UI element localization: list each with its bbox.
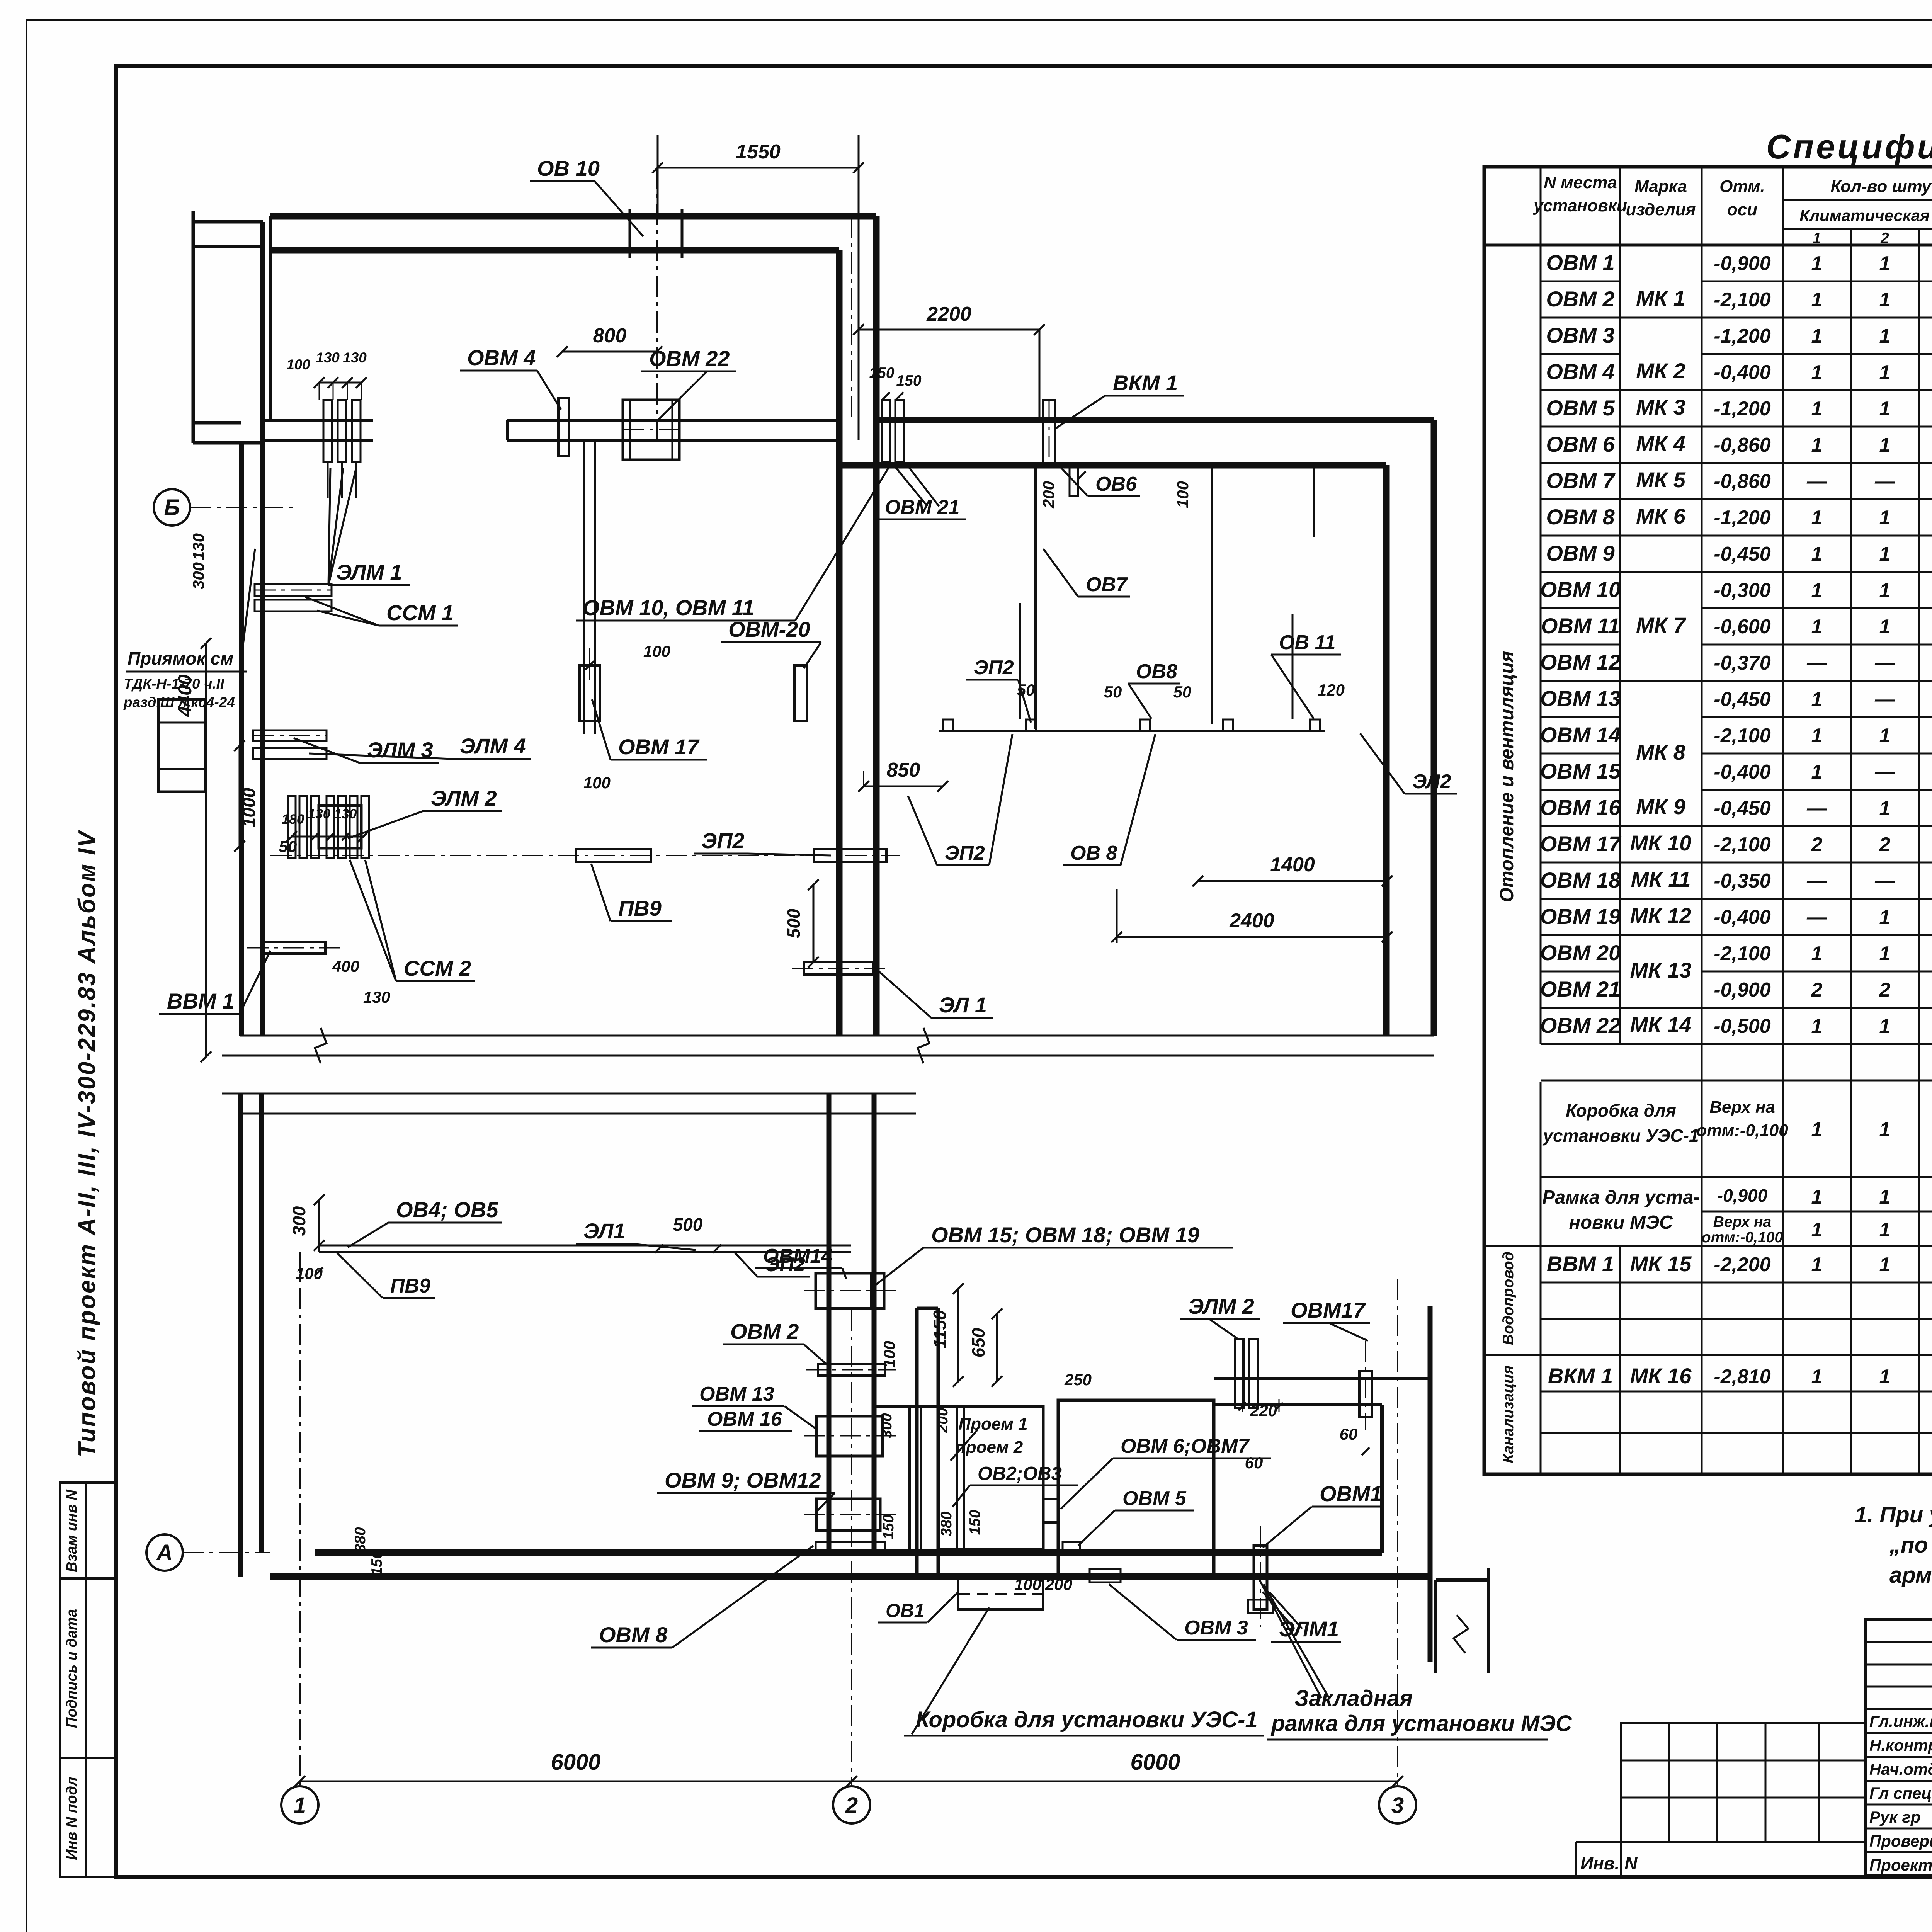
svg-text:380: 380 <box>352 1527 369 1552</box>
svg-text:ОВМ 3: ОВМ 3 <box>1184 1617 1248 1639</box>
svg-text:Закладная: Закладная <box>1294 1686 1413 1711</box>
svg-text:1: 1 <box>1811 1219 1823 1241</box>
svg-text:-2,810: -2,810 <box>1714 1366 1771 1388</box>
elm3 elm4 plates <box>253 730 327 741</box>
svg-text:-0,450: -0,450 <box>1714 797 1771 820</box>
svg-text:ОВМ 14: ОВМ 14 <box>1540 723 1621 747</box>
svg-text:1. При установке закладной: 1. При установке закладной рамки, полки … <box>1855 1502 1932 1527</box>
svg-text:6000: 6000 <box>1130 1750 1180 1775</box>
OVM13/16 element box <box>816 1416 883 1456</box>
svg-text:ОВ6: ОВ6 <box>1095 473 1137 495</box>
svg-text:130: 130 <box>334 806 357 821</box>
left spec table column lines body <box>1540 245 1542 1044</box>
svg-text:установки: установки <box>1533 196 1627 215</box>
svg-text:ЭП2: ЭП2 <box>945 842 985 864</box>
OVM17 element u <box>580 665 600 721</box>
svg-text:800: 800 <box>593 325 627 347</box>
axis circle 2 <box>833 1786 870 1823</box>
svg-text:150: 150 <box>880 1514 897 1539</box>
svg-text:1: 1 <box>1811 507 1823 529</box>
left spec table outer frame <box>1484 167 1932 1474</box>
svg-text:МК 6: МК 6 <box>1636 504 1686 528</box>
svg-text:ОВМ-20: ОВМ-20 <box>728 617 810 641</box>
axis A circle <box>146 1534 183 1571</box>
svg-text:МК 2: МК 2 <box>1636 359 1685 383</box>
svg-text:ОВМ 13: ОВМ 13 <box>1540 686 1621 711</box>
bottom axis dim line <box>300 1781 1398 1782</box>
svg-text:200: 200 <box>1039 481 1058 509</box>
svg-text:-0,900: -0,900 <box>1717 1185 1768 1206</box>
svg-text:ОВМ 9: ОВМ 9 <box>1546 541 1614 565</box>
svg-text:ОВ7: ОВ7 <box>1086 573 1128 596</box>
svg-text:ОВ4; ОВ5: ОВ4; ОВ5 <box>396 1197 498 1222</box>
svg-text:ОВМ 13: ОВМ 13 <box>699 1383 774 1405</box>
axis circle 3 <box>1379 1786 1416 1823</box>
svg-text:ЭП2: ЭП2 <box>974 656 1014 679</box>
dim 4400 vertical <box>205 643 207 1057</box>
svg-text:МК 8: МК 8 <box>1636 740 1686 764</box>
svg-text:ОВМ 15; ОВМ 18; ОВМ 19: ОВМ 15; ОВМ 18; ОВМ 19 <box>931 1223 1199 1247</box>
svg-text:ОВМ 2: ОВМ 2 <box>1546 287 1614 311</box>
svg-text:ВВМ 1: ВВМ 1 <box>1547 1252 1614 1276</box>
svg-text:Водопровод: Водопровод <box>1500 1252 1517 1345</box>
svg-text:МК 9: МК 9 <box>1636 794 1685 819</box>
svg-text:-0,400: -0,400 <box>1714 906 1771 929</box>
svg-text:-0,300: -0,300 <box>1714 579 1771 602</box>
left spec table VVM/VKM rows <box>1619 1246 1621 1474</box>
svg-text:1: 1 <box>1811 398 1823 420</box>
svg-text:250: 250 <box>1064 1371 1092 1389</box>
svg-text:1: 1 <box>1811 434 1823 456</box>
svg-text:150: 150 <box>896 372 921 389</box>
svg-text:1: 1 <box>1879 398 1891 420</box>
left small stamp table <box>1576 1841 1866 1843</box>
svg-text:ОВМ 12: ОВМ 12 <box>1540 650 1621 674</box>
svg-text:1: 1 <box>294 1793 306 1818</box>
dims 1150 650 <box>957 1289 959 1381</box>
svg-text:-0,370: -0,370 <box>1714 652 1771 674</box>
svg-text:150: 150 <box>369 1550 385 1575</box>
OVM5 element <box>1063 1542 1080 1553</box>
svg-text:400: 400 <box>332 957 359 975</box>
top wall left section <box>270 213 876 220</box>
svg-text:Инв N подл: Инв N подл <box>64 1777 80 1860</box>
svg-text:—: — <box>1806 470 1827 493</box>
svg-text:Нач.отд: Нач.отд <box>1869 1760 1932 1778</box>
svg-text:2200: 2200 <box>926 303 971 325</box>
SSM1 two plates <box>255 584 332 596</box>
svg-text:130: 130 <box>189 533 207 560</box>
vert stubs to elements <box>1019 603 1021 719</box>
svg-text:ОВ2;ОВ3: ОВ2;ОВ3 <box>978 1463 1062 1484</box>
OVM1/ELM1 element <box>1254 1546 1267 1609</box>
small elements on radiator line <box>943 719 953 731</box>
svg-text:—: — <box>1806 906 1827 929</box>
svg-text:рамка для установки МЭС: рамка для установки МЭС <box>1270 1711 1572 1736</box>
svg-text:-2,100: -2,100 <box>1714 942 1771 965</box>
OVM22 element <box>623 400 679 460</box>
svg-text:1: 1 <box>1811 1015 1823 1037</box>
svg-text:100: 100 <box>880 1341 898 1368</box>
svg-text:1: 1 <box>1879 252 1891 275</box>
svg-text:изделия: изделия <box>1626 200 1696 219</box>
svg-text:Инв. N: Инв. N <box>1580 1853 1638 1873</box>
svg-text:130: 130 <box>343 350 367 366</box>
svg-text:Канализация: Канализация <box>1500 1365 1517 1463</box>
svg-text:ССМ 1: ССМ 1 <box>386 600 454 625</box>
svg-text:-1,200: -1,200 <box>1714 398 1771 420</box>
proem box <box>939 1406 1043 1549</box>
svg-text:ОВМ 18: ОВМ 18 <box>1540 868 1621 892</box>
svg-text:МК 7: МК 7 <box>1636 613 1687 637</box>
svg-text:500: 500 <box>673 1214 703 1235</box>
upper-half bottom break lines <box>240 1035 1434 1037</box>
lower-half top break lines <box>222 1093 916 1095</box>
svg-text:200: 200 <box>1045 1575 1072 1594</box>
partition x1525 upper room <box>583 440 585 734</box>
svg-text:ОВМ 4: ОВМ 4 <box>467 345 536 370</box>
wall right of block <box>1213 1400 1215 1430</box>
svg-text:-0,450: -0,450 <box>1714 688 1771 711</box>
svg-text:1: 1 <box>1811 543 1823 565</box>
svg-text:100: 100 <box>643 642 670 660</box>
svg-text:Взам инв N: Взам инв N <box>64 1489 80 1572</box>
left margin stamp boxes <box>60 1483 115 1877</box>
elm2 plates low <box>1235 1339 1243 1408</box>
svg-text:1400: 1400 <box>1270 854 1315 876</box>
svg-text:100: 100 <box>1173 481 1192 508</box>
title block signature grid <box>1866 1620 1932 1876</box>
break squiggle right <box>1454 1615 1468 1653</box>
svg-text:ОВ1: ОВ1 <box>886 1600 925 1621</box>
svg-text:2400: 2400 <box>1229 910 1274 932</box>
svg-text:—: — <box>1874 470 1895 493</box>
svg-text:1: 1 <box>1811 942 1823 965</box>
svg-text:150: 150 <box>869 365 894 381</box>
svg-text:ОВМ 17: ОВМ 17 <box>1540 832 1622 856</box>
svg-text:А: А <box>156 1540 173 1565</box>
dim 500 mid <box>813 885 815 962</box>
UES-1 box element <box>958 1578 1043 1609</box>
svg-text:1: 1 <box>1879 616 1891 638</box>
ssm2 plates <box>350 796 357 858</box>
svg-text:-2,100: -2,100 <box>1714 833 1771 856</box>
svg-text:1: 1 <box>1813 230 1821 247</box>
left spec table korobka/ramka rows <box>1541 1080 1932 1082</box>
svg-text:2: 2 <box>1879 833 1891 856</box>
svg-text:ОВМ14: ОВМ14 <box>763 1245 832 1267</box>
svg-text:—: — <box>1874 652 1895 674</box>
svg-text:60: 60 <box>1340 1425 1358 1443</box>
svg-text:4400: 4400 <box>175 674 196 717</box>
VVM1 plate <box>261 942 325 954</box>
svg-text:2: 2 <box>1880 230 1889 247</box>
svg-text:ОВМ 17: ОВМ 17 <box>618 735 700 759</box>
svg-text:ОВ8: ОВ8 <box>1136 660 1177 683</box>
svg-text:ОВМ 16: ОВМ 16 <box>1540 795 1621 820</box>
svg-text:МК 14: МК 14 <box>1630 1012 1692 1037</box>
right exterior wall upper half <box>1431 420 1437 1036</box>
OVM21 plates <box>882 400 890 462</box>
svg-text:1: 1 <box>1811 289 1823 311</box>
svg-text:ОВМ 15: ОВМ 15 <box>1540 759 1621 783</box>
OVM4 element <box>558 398 569 456</box>
svg-text:1: 1 <box>1879 1118 1891 1141</box>
svg-text:ЭЛМ 2: ЭЛМ 2 <box>1188 1294 1254 1318</box>
svg-text:оси: оси <box>1727 200 1757 219</box>
svg-text:арматурных каркасов.: арматурных каркасов. <box>1889 1563 1932 1588</box>
svg-text:-0,600: -0,600 <box>1714 616 1771 638</box>
svg-text:Коробка для установки УЭС-1: Коробка для установки УЭС-1 <box>916 1707 1258 1732</box>
svg-text:1: 1 <box>1879 289 1891 311</box>
svg-text:—: — <box>1874 870 1895 892</box>
svg-text:ТДК-Н-1-70 ч.II: ТДК-Н-1-70 ч.II <box>124 676 224 692</box>
svg-text:1: 1 <box>1879 797 1891 820</box>
svg-text:ОВМ 4: ОВМ 4 <box>1546 359 1614 384</box>
OVM8 plate on bottom wall <box>816 1542 885 1550</box>
svg-text:ОВМ 21: ОВМ 21 <box>1540 977 1621 1001</box>
dim 300 rot low <box>318 1200 320 1245</box>
svg-text:850: 850 <box>887 759 920 781</box>
svg-text:1: 1 <box>1811 579 1823 602</box>
svg-text:МК 5: МК 5 <box>1636 468 1686 492</box>
dim 2400 <box>1117 936 1387 938</box>
svg-text:1150: 1150 <box>930 1310 950 1348</box>
axis-2 wall lower half <box>827 1094 832 1549</box>
svg-text:МК 4: МК 4 <box>1636 431 1685 456</box>
svg-text:проем 2: проем 2 <box>956 1438 1023 1457</box>
svg-text:-0,400: -0,400 <box>1714 761 1771 783</box>
interior wall of upper-left room <box>262 419 373 422</box>
pit rectangle <box>158 699 206 792</box>
svg-text:ЭЛ1: ЭЛ1 <box>583 1219 625 1243</box>
lower right room walls <box>1214 1377 1430 1380</box>
svg-text:ОВ 11: ОВ 11 <box>1279 631 1335 654</box>
svg-text:ЭЛ 1: ЭЛ 1 <box>939 993 987 1017</box>
dim 100 130 130 top-left <box>319 382 333 384</box>
svg-text:Рамка для уста-: Рамка для уста- <box>1542 1187 1699 1208</box>
svg-text:1: 1 <box>1879 1015 1891 1037</box>
svg-text:—: — <box>1806 797 1827 820</box>
svg-text:-0,450: -0,450 <box>1714 543 1771 565</box>
svg-text:Типовой проект А-II, I: Типовой проект А-II, III, IV-300-229.83 … <box>74 830 100 1458</box>
svg-text:-0,900: -0,900 <box>1714 979 1771 1001</box>
svg-text:-0,860: -0,860 <box>1714 434 1771 456</box>
svg-text:1: 1 <box>1811 616 1823 638</box>
svg-text:ЭЛМ 4: ЭЛМ 4 <box>460 734 526 758</box>
axis B circle <box>154 489 190 526</box>
svg-text:1: 1 <box>1879 1253 1891 1276</box>
svg-text:1: 1 <box>1879 724 1891 747</box>
VKM1 element <box>1043 400 1055 464</box>
svg-text:Верх на: Верх на <box>1709 1098 1775 1117</box>
svg-text:Верх на: Верх на <box>1713 1214 1771 1230</box>
svg-text:—: — <box>1806 652 1827 674</box>
OV4 OV5 channel <box>319 1245 851 1247</box>
svg-text:„по месту”в местах прохода: „по месту”в местах прохода вертикальных … <box>1889 1532 1932 1558</box>
svg-text:500: 500 <box>784 908 804 938</box>
svg-text:ПВ9: ПВ9 <box>390 1275 430 1297</box>
svg-text:ОВМ 19: ОВМ 19 <box>1540 904 1621 929</box>
svg-text:3: 3 <box>1391 1793 1404 1818</box>
radiator line upper right room <box>939 730 1325 732</box>
lower half bottom wall <box>270 1573 1430 1580</box>
OVM17 plate low <box>1359 1371 1372 1417</box>
top wall right section lower level <box>876 417 1434 423</box>
svg-text:-2,200: -2,200 <box>1714 1253 1771 1276</box>
svg-text:380: 380 <box>938 1511 955 1536</box>
svg-text:1: 1 <box>1879 942 1891 965</box>
svg-text:Гл спец: Гл спец <box>1869 1784 1932 1802</box>
detached stub column lower right <box>1434 1580 1437 1673</box>
left spec table row lines <box>1541 281 1620 282</box>
svg-text:Климатическая зона: Климатическая зона <box>1799 206 1932 224</box>
svg-text:1: 1 <box>1811 1253 1823 1276</box>
svg-text:50: 50 <box>1104 683 1122 701</box>
svg-text:1: 1 <box>1879 325 1891 347</box>
OVM3 element <box>1090 1569 1121 1582</box>
svg-text:ОВМ 7: ОВМ 7 <box>1546 468 1616 493</box>
svg-text:Коробка для: Коробка для <box>1566 1100 1676 1121</box>
svg-text:1: 1 <box>1879 579 1891 602</box>
svg-text:ЭЛМ 1: ЭЛМ 1 <box>336 560 402 584</box>
OVM20 element plate <box>794 665 807 721</box>
left exterior wall <box>239 443 244 1036</box>
svg-text:МК 3: МК 3 <box>1636 395 1685 419</box>
svg-text:2: 2 <box>1811 833 1823 856</box>
svg-text:-2,100: -2,100 <box>1714 289 1771 311</box>
svg-text:Б: Б <box>164 495 180 520</box>
svg-text:Подпись и дата: Подпись и дата <box>64 1609 80 1728</box>
el1 element mid <box>804 962 873 975</box>
svg-text:ОВМ 10, ОВМ 11: ОВМ 10, ОВМ 11 <box>583 595 754 620</box>
svg-text:ОВМ17: ОВМ17 <box>1291 1298 1366 1322</box>
svg-text:ЭП2: ЭП2 <box>701 828 745 853</box>
dim 2200 <box>859 329 1039 331</box>
svg-text:ОВМ 2: ОВМ 2 <box>730 1319 799 1344</box>
OVM2 element low <box>818 1364 885 1376</box>
axis circle 1 <box>281 1786 318 1823</box>
svg-text:50: 50 <box>1017 681 1035 699</box>
svg-text:МК 11: МК 11 <box>1631 867 1691 891</box>
svg-text:ВКМ 1: ВКМ 1 <box>1548 1364 1613 1388</box>
svg-text:ОВМ 6;ОВМ7: ОВМ 6;ОВМ7 <box>1121 1435 1250 1458</box>
svg-text:ЭЛМ 2: ЭЛМ 2 <box>431 786 497 810</box>
svg-text:Рук гр: Рук гр <box>1869 1808 1920 1826</box>
svg-text:N места: N места <box>1544 173 1617 192</box>
svg-text:ОВМ 1: ОВМ 1 <box>1546 250 1614 275</box>
svg-text:2: 2 <box>1879 979 1891 1001</box>
dim 1000 vertical <box>239 746 241 846</box>
svg-text:1: 1 <box>1879 361 1891 384</box>
svg-text:1: 1 <box>1811 724 1823 747</box>
svg-text:ОВМ 16: ОВМ 16 <box>707 1408 782 1430</box>
svg-text:200: 200 <box>934 1408 951 1433</box>
svg-text:Отопление и вентиляция: Отопление и вентиляция <box>1497 651 1517 902</box>
svg-text:ВКМ 1: ВКМ 1 <box>1113 371 1178 395</box>
svg-text:ОВМ 5: ОВМ 5 <box>1122 1487 1187 1510</box>
svg-text:Кол-во штук: Кол-во штук <box>1831 177 1932 196</box>
left spec table header <box>1540 167 1542 245</box>
svg-text:установки УЭС-1: установки УЭС-1 <box>1542 1126 1699 1146</box>
svg-text:ОВМ 11: ОВМ 11 <box>1541 614 1620 638</box>
block between plates <box>319 806 361 848</box>
svg-text:ОВМ 5: ОВМ 5 <box>1546 396 1615 420</box>
svg-text:МК 10: МК 10 <box>1630 831 1692 855</box>
svg-text:Спецификация закладных дет: Спецификация закладных деталей <box>1766 128 1932 166</box>
svg-text:ОВМ 22: ОВМ 22 <box>1540 1013 1621 1037</box>
svg-text:ОВМ 9; ОВМ12: ОВМ 9; ОВМ12 <box>665 1468 821 1492</box>
svg-text:ОВМ1: ОВМ1 <box>1320 1481 1382 1506</box>
central wall lower half <box>915 1308 919 1577</box>
EP2 plates mid <box>576 849 651 862</box>
svg-text:ОВМ 8: ОВМ 8 <box>599 1622 668 1647</box>
big block lower right room <box>1058 1400 1214 1575</box>
svg-text:1000: 1000 <box>239 787 259 827</box>
svg-text:1: 1 <box>1811 361 1823 384</box>
svg-text:1: 1 <box>1811 252 1823 275</box>
axis grid verticals <box>299 1252 301 1785</box>
svg-text:100: 100 <box>286 357 310 372</box>
svg-text:180: 180 <box>282 812 304 827</box>
left pocket walls <box>192 211 195 443</box>
svg-text:Приямок см: Приямок см <box>128 648 233 668</box>
svg-text:-1,200: -1,200 <box>1714 507 1771 529</box>
svg-text:1: 1 <box>1879 507 1891 529</box>
svg-text:300: 300 <box>189 562 207 589</box>
OVM14 element <box>816 1273 884 1308</box>
svg-text:—: — <box>1874 761 1895 783</box>
svg-text:Отм.: Отм. <box>1719 177 1765 196</box>
svg-text:120: 120 <box>1318 681 1345 699</box>
svg-text:Н.контрес: Н.контрес <box>1869 1736 1932 1754</box>
dim 850 <box>864 786 943 787</box>
svg-text:6000: 6000 <box>551 1750 600 1775</box>
svg-text:МК 15: МК 15 <box>1630 1252 1692 1276</box>
svg-text:-0,400: -0,400 <box>1714 361 1771 384</box>
svg-text:60: 60 <box>1245 1454 1263 1472</box>
svg-text:1550: 1550 <box>736 141 781 163</box>
svg-text:-2,100: -2,100 <box>1714 724 1771 747</box>
svg-text:-0,350: -0,350 <box>1714 870 1771 892</box>
svg-text:130: 130 <box>316 350 340 366</box>
svg-text:ВВМ 1: ВВМ 1 <box>167 989 234 1013</box>
partition stubs upper right room <box>1034 465 1037 729</box>
svg-text:ОВМ 20: ОВМ 20 <box>1540 940 1621 965</box>
svg-text:Проектир.: Проектир. <box>1869 1856 1932 1874</box>
svg-text:-1,200: -1,200 <box>1714 325 1771 347</box>
OV10 sleeve in top wall <box>629 209 631 258</box>
svg-text:300: 300 <box>289 1206 309 1236</box>
svg-text:отм:-0,100: отм:-0,100 <box>1702 1229 1783 1246</box>
svg-text:100: 100 <box>583 774 611 792</box>
svg-text:1: 1 <box>1811 761 1823 783</box>
lower half left wall <box>238 1094 243 1577</box>
OVM67 element <box>1043 1499 1058 1522</box>
svg-text:ПВ9: ПВ9 <box>618 896 662 920</box>
svg-text:ОВМ 6: ОВМ 6 <box>1546 432 1615 456</box>
svg-text:-0,500: -0,500 <box>1714 1015 1771 1037</box>
svg-text:130: 130 <box>363 988 390 1006</box>
svg-text:1: 1 <box>1811 1366 1823 1388</box>
svg-text:1: 1 <box>1811 1118 1823 1141</box>
svg-text:-0,900: -0,900 <box>1714 252 1771 275</box>
svg-text:1: 1 <box>1811 325 1823 347</box>
svg-text:ОВМ 3: ОВМ 3 <box>1546 323 1614 347</box>
svg-text:50: 50 <box>1173 683 1192 701</box>
svg-text:МК 12: МК 12 <box>1630 903 1692 928</box>
svg-text:1: 1 <box>1879 1219 1891 1241</box>
